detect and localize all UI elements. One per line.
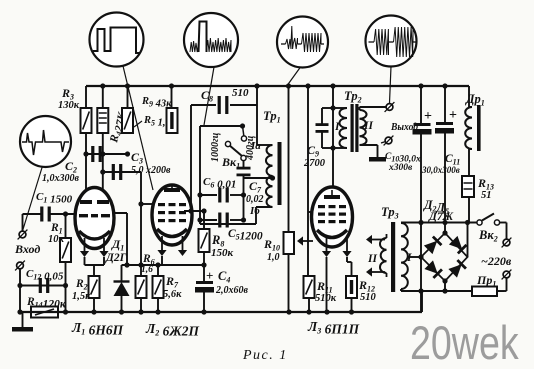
resistor R10 — [263, 232, 313, 312]
resistor R8 — [199, 211, 234, 265]
transformer Тр2 winding II — [360, 110, 374, 145]
oscillogram inset 5 (tone bursts) — [366, 16, 417, 67]
tube Л3 grids — [318, 205, 346, 223]
capacitor C6 — [197, 176, 246, 220]
transformer Тр3 winding I — [401, 223, 421, 289]
wire screen node — [184, 105, 207, 214]
terminal mains upper — [503, 239, 510, 246]
label Д2-Д5 Д7Ж — [423, 198, 454, 223]
leader line from inset 2 — [123, 66, 153, 190]
wire tube1 cathode to R2 — [85, 257, 105, 276]
transformer Тр2 core — [351, 104, 359, 152]
node ground bus junctions — [63, 309, 354, 314]
svg-text:1,6: 1,6 — [141, 265, 153, 275]
wire B+ to R10 — [288, 86, 290, 232]
transformer Тр2 winding I — [334, 108, 347, 148]
wire cathode bias net — [122, 262, 207, 267]
capacitor C9 — [303, 108, 333, 169]
svg-text:10к: 10к — [48, 234, 65, 245]
svg-text:1,5к: 1,5к — [72, 291, 91, 302]
resistor R7 — [153, 265, 183, 312]
svg-text:х300в: х300в — [388, 163, 413, 173]
wire Тр2 primary feed — [330, 86, 347, 151]
choke Др1 — [465, 86, 485, 151]
svg-text:510: 510 — [360, 292, 377, 303]
transformer Тр1 core — [278, 142, 282, 205]
oscillogram inset 2 (square wave) — [90, 13, 144, 67]
tube Л3 anode — [324, 190, 340, 199]
resistor R14 — [26, 296, 67, 318]
resistor R9 — [141, 86, 178, 133]
svg-text:5,6к: 5,6к — [163, 289, 182, 300]
svg-text:1,0: 1,0 — [267, 252, 280, 263]
tube Л2 anode — [164, 184, 180, 192]
svg-text:51: 51 — [481, 190, 492, 201]
resistor R3 — [58, 86, 92, 133]
leader line from inset 1 to input — [23, 166, 43, 231]
wire top B+ bus — [86, 85, 469, 87]
svg-text:150к: 150к — [211, 247, 234, 259]
svg-text:5,0 х200в: 5,0 х200в — [131, 165, 171, 176]
svg-text:Д2Г: Д2Г — [105, 252, 127, 264]
capacitor C7 — [237, 161, 273, 205]
terminal mains lower — [497, 270, 511, 291]
leader line from inset 4 — [288, 67, 301, 85]
terminal output upper — [386, 104, 393, 111]
transformer Тр3 winding II arrows — [366, 235, 385, 277]
svg-text:0,02: 0,02 — [246, 194, 264, 205]
svg-text:510: 510 — [232, 87, 249, 99]
resistor R12 — [346, 262, 377, 312]
wire Тр2 secondary to output — [360, 107, 387, 157]
svg-text:+: + — [424, 109, 432, 124]
resistor R11 — [304, 276, 337, 312]
tube Л1 anodes — [80, 200, 109, 204]
capacitor C10 electrolytic — [413, 86, 433, 312]
oscillogram inset 1 (input pulses) — [20, 116, 71, 167]
wire Тр1 primary top feed — [257, 86, 273, 145]
svg-text:I: I — [334, 121, 340, 133]
tube Л3 heater arrows — [322, 237, 352, 312]
bridge rectifier Д2-Д5 — [418, 223, 467, 292]
svg-text:130к: 130к — [58, 100, 80, 111]
capacitor C2 — [42, 133, 130, 200]
capacitor C1 — [36, 191, 77, 222]
tube Л1 heater arrows — [80, 238, 109, 257]
svg-text:II: II — [367, 253, 377, 265]
tube Л1 6Н6П envelope — [75, 188, 114, 249]
capacitor C12 — [20, 268, 68, 293]
svg-text:+: + — [206, 268, 213, 283]
fuse Пр1 — [466, 273, 504, 296]
wire Тр1 bottom return — [256, 207, 273, 224]
tube Л2 cathode — [157, 229, 187, 237]
label C10 — [385, 152, 421, 173]
svg-text:2,0х60в: 2,0х60в — [215, 285, 249, 296]
svg-text:+: + — [449, 108, 457, 123]
wire bottom ground bus — [20, 311, 422, 313]
svg-text:Л1 6Н6П: Л1 6Н6П — [71, 320, 124, 338]
tube Л1 cathode — [79, 231, 110, 239]
leader line from inset 3 — [204, 67, 214, 125]
transformer Тр1 winding Ia-Iб — [249, 140, 273, 217]
svg-text:30,0х300в: 30,0х300в — [421, 165, 460, 175]
svg-text:Вход: Вход — [14, 242, 40, 256]
tube Л1 grid — [79, 214, 110, 217]
terminal output lower — [381, 136, 393, 146]
switch Вк1 — [221, 126, 247, 171]
node top bus junctions — [100, 83, 447, 88]
oscillogram inset 4 (modulated bursts) — [277, 17, 328, 68]
resistor R2 — [72, 276, 100, 312]
svg-text:II: II — [363, 120, 373, 132]
wire Тр2 to tube3 anode — [332, 150, 334, 187]
svg-text:Л2 6Ж2П: Л2 6Ж2П — [145, 321, 200, 339]
tube Л2 6Ж2П envelope — [152, 185, 192, 245]
tube Л2 grids — [158, 203, 186, 222]
transformer Тр3 winding II — [367, 234, 387, 277]
tube Л2 heater arrows — [157, 236, 187, 265]
wire mains top (220V line) — [401, 220, 477, 225]
wire mains bottom (fuse line) — [401, 288, 472, 293]
svg-text:Д7Ж: Д7Ж — [428, 211, 454, 223]
node Тр1 center tap — [270, 175, 275, 180]
wire tone box — [200, 123, 256, 224]
svg-text:Ia: Ia — [250, 140, 261, 152]
wire B+ to R11 — [307, 86, 309, 276]
resistor R13 — [462, 149, 494, 223]
switch Вк2 — [477, 214, 507, 244]
wire tube1 second grid to diode — [110, 213, 130, 268]
resistor R6 — [136, 253, 155, 312]
tube Л3 6П1П envelope — [312, 187, 353, 247]
terminal input lower — [15, 261, 25, 315]
svg-text:Рис. 1: Рис. 1 — [242, 348, 288, 363]
ground output — [369, 157, 386, 162]
capacitor C3 — [100, 133, 171, 201]
capacitor C11 electrolytic — [421, 86, 460, 223]
oscillogram inset 3 (pulse with bursts) — [184, 13, 238, 67]
svg-text:1000гц: 1000гц — [210, 132, 221, 162]
svg-text:20wek: 20wek — [410, 317, 519, 369]
svg-text:2700: 2700 — [303, 158, 326, 169]
svg-text:I: I — [406, 252, 412, 264]
capacitor C4 electrolytic — [195, 265, 249, 312]
transformer Тр3 core — [391, 222, 395, 292]
resistor R5 — [122, 86, 172, 133]
svg-text:Л3 6П1П: Л3 6П1П — [307, 319, 360, 337]
svg-text:~220в: ~220в — [481, 254, 512, 268]
wire tube2 grid drop — [138, 172, 153, 265]
capacitor C5 — [197, 213, 263, 243]
svg-text:1,0х300в: 1,0х300в — [42, 173, 80, 184]
wire ground return riser — [421, 291, 423, 312]
leader line from inset 5 to output — [390, 67, 392, 104]
resistor R1 — [48, 214, 71, 312]
ground — [12, 312, 33, 332]
capacitor C8 — [191, 87, 257, 114]
tube Л3 cathode — [317, 230, 347, 238]
resistor R4 — [97, 86, 129, 145]
diode Д1 Д2Г — [105, 237, 130, 312]
terminal input upper — [18, 214, 41, 239]
